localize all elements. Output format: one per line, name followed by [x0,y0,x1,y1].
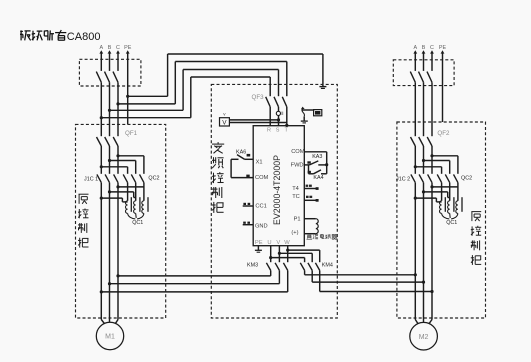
breaker QF3 pole T blade [282,97,287,107]
svg-text:PE: PE [255,240,263,246]
label 变频控制柜 [212,143,224,145]
svg-text:J1C 2: J1C 2 [396,177,410,183]
supply R phase B entry wire [423,53,425,71]
svg-text:W: W [284,240,290,246]
svg-text:EV2000-4T2000P: EV2000-4T2000P [272,155,282,225]
svg-text:P1: P1 [294,216,301,222]
wire KM3 pole1 to M1 line [270,270,272,276]
autotransformer winding 1 (right) [441,183,443,201]
inverter U1 body [253,126,304,246]
wire W output [287,246,289,263]
supply R phase C arrow [430,50,434,53]
svg-text:COM: COM [255,175,269,181]
wire U output [270,246,272,263]
fuse circle on S line [276,111,280,115]
motor M1 [96,322,123,349]
svg-text:COM: COM [291,149,305,155]
svg-text:QC1: QC1 [446,220,457,226]
wire KM3 pole3 to M1 line [287,270,289,292]
right cabinet dashed box 原控制柜 [397,122,486,318]
label 原控制柜 (right) [471,211,481,213]
supply R phase A entry wire [414,53,416,71]
star point QC1 (left) [128,213,144,219]
inverter cabinet dashed box 变频控制柜 [211,84,337,318]
svg-text:J1C 1: J1C 1 [84,177,98,183]
autotransformer tap wire C [116,185,119,188]
contactor KM4 blades [300,263,304,271]
svg-text:S: S [276,127,280,133]
wire QF3 R output to inverter [269,107,271,126]
breaker QF1 blade [113,137,118,146]
autotransformer tap wire B (right) [422,190,425,193]
supply R phase A arrow [413,50,417,53]
wire phase into QF1 [100,82,102,136]
autotransformer winding 2 (right) [449,183,451,201]
supply R PE arrow [441,50,445,53]
svg-text:R: R [267,127,271,133]
junction T at inverter input [285,124,288,127]
breaker QF2 blade [427,137,432,146]
svg-text:B: B [422,45,426,51]
isolator blade phase C (left supply) [113,72,118,83]
autotransformer tap wire B [108,190,111,193]
terminal GND stub [243,224,254,226]
star point QC1 (right) [442,213,458,219]
left supply dashed box [79,59,140,86]
winding core bars (left) [130,197,132,212]
left cabinet dashed box 原控制柜 [76,124,166,318]
branch B to QC2 pole2 [108,159,111,162]
svg-text:QF3: QF3 [252,94,265,101]
wire phase into QF2 [431,82,433,136]
contactor QC2 blades (left) [123,174,127,182]
contactor J1C2 blades [411,174,415,182]
branch C to QC2 pole3 (right) [430,154,433,157]
contactor J1C1 blades [97,174,101,182]
svg-text:(+): (+) [291,230,298,236]
surge arrester earth [303,117,305,121]
contactor KM3 blades [266,263,270,271]
supply R phase C entry wire [431,53,433,71]
wire A branch to middle (node) [100,116,103,119]
isolator blade phase A (right supply) [410,72,415,83]
svg-text:KA4: KA4 [313,175,323,181]
breaker QF3 pole R blade [266,97,271,107]
branch A to QC2 pole1 (right) [414,165,417,168]
supply L PE wire [127,53,129,125]
voltmeter V1 [220,118,230,126]
PE earth symbol at inverter cabinet [319,86,326,88]
breaker QF2 blade [411,137,416,146]
wire QF3 T output to inverter [286,107,288,126]
wire V branch to KM4 [279,252,312,254]
svg-text:GND: GND [255,223,268,229]
inverter PE earth [257,246,259,250]
wire J1C1 outputs down to motor M1 [100,183,102,320]
svg-text:KM4: KM4 [322,263,333,269]
wires into M1 [101,320,104,324]
wire phase into QF2 [414,82,416,136]
branch C to QC2 pole3 [116,154,119,157]
autotransformer tap wire A (right) [414,197,417,200]
supply L phase A arrow [99,50,103,53]
autotransformer tap wire A [100,197,103,200]
svg-text:CC1: CC1 [255,204,266,210]
isolator blade phase A (left supply) [96,72,101,83]
wire QF1 outputs [100,146,102,174]
wire C branch to middle (node) [116,102,119,105]
surge arrester F1 [302,109,314,111]
voltmeter wire to S [229,119,278,121]
autotransformer winding 1 (left) [127,183,129,201]
svg-text:QF1: QF1 [125,130,138,137]
supply L phase A entry wire [100,53,102,71]
wire phase into QF1 [109,82,111,136]
svg-text:PE: PE [439,45,447,51]
terminal TC stub [304,199,316,201]
svg-text:M1: M1 [105,334,115,341]
svg-text:FWD: FWD [291,163,304,169]
autotransformer winding 3 (right) [457,183,459,201]
svg-text:B: B [108,45,112,51]
supply R phase B arrow [422,50,426,53]
voltmeter wire to T [229,122,286,124]
DC reactor label 直流电抗器 [307,233,311,235]
supply L phase C arrow [116,50,120,53]
wire QF3 S output to inverter [278,107,280,126]
motor M2 [410,322,438,350]
svg-text:A: A [99,45,103,51]
autotransformer winding 3 (left) [143,183,145,201]
winding core bars (right) [444,197,446,212]
FWD wire with KA3 contact [304,164,309,166]
wire V output [278,246,280,263]
svg-text:TC: TC [292,194,300,200]
svg-text:CA800: CA800 [67,31,101,43]
wire J1C2 outputs down to motor M2 [414,183,416,320]
svg-text:T4: T4 [292,186,299,192]
wire KM4 pole1 to M2 line [304,270,306,274]
wire PE branch to middle (node) [126,95,129,98]
wire KM4 pole3 to M2 line [319,270,321,291]
supply L phase C entry wire [117,53,119,71]
supply L PE arrow [126,50,130,53]
wire KM4 pole2 to M2 line [311,270,313,282]
breaker QF3 pole S blade [274,97,279,107]
wire KM3 pole2 to M1 line [278,270,280,283]
wire U branch to KM4 [271,257,305,259]
autotransformer tap wire C (right) [430,185,433,188]
isolator blade phase B (right supply) [419,72,424,83]
breaker QF1 blade [97,137,102,146]
branch B to QC2 pole2 (right) [422,159,425,162]
copyright text 版权所有CA800 [20,30,22,40]
DC reactor L1 [304,218,316,220]
terminal T4 stub [304,188,316,190]
svg-text:PE: PE [124,45,132,51]
wires into M2 [415,320,418,325]
wire B branch to middle (node) [108,109,111,112]
branch A to QC2 pole1 [100,165,103,168]
COM right rail [304,151,326,153]
isolator blade phase B (left supply) [105,72,110,83]
wire phase into QF1 [117,82,119,136]
label 原控制柜 (left) [79,193,89,195]
svg-text:X1: X1 [256,159,263,165]
supply L phase B entry wire [109,53,111,71]
supply R PE wire [442,53,444,123]
svg-text:V: V [276,240,280,246]
autotransformer winding 2 (left) [135,183,137,201]
svg-text:C: C [116,45,120,51]
right supply dashed box [393,60,454,86]
svg-text:U: U [267,240,271,246]
svg-text:QF2: QF2 [437,130,450,137]
wire W branch to KM4 [288,249,320,251]
svg-text:A: A [413,45,417,51]
breaker QF1 blade [105,137,110,146]
terminal CC1 stub [243,205,254,207]
wire KA6 loop [230,159,232,177]
svg-text:QC2: QC2 [148,175,159,181]
svg-text:KA3: KA3 [312,154,322,160]
contact KA6 to X1 wire [245,158,254,160]
contactor QC2 blades (right) [437,174,441,182]
svg-text:KM3: KM3 [247,263,258,269]
svg-text:QC1: QC1 [132,220,143,226]
isolator blade phase C (right supply) [427,72,432,83]
svg-text:V: V [222,120,227,127]
svg-text:QC2: QC2 [461,175,472,181]
supply L phase B arrow [108,50,112,53]
relay contact KA4 branch [308,165,310,174]
wire phase into QF2 [423,82,425,136]
svg-text:M2: M2 [419,334,429,341]
breaker QF2 blade [419,137,424,146]
wire QF2 outputs [414,146,416,174]
svg-text:C: C [430,45,434,51]
